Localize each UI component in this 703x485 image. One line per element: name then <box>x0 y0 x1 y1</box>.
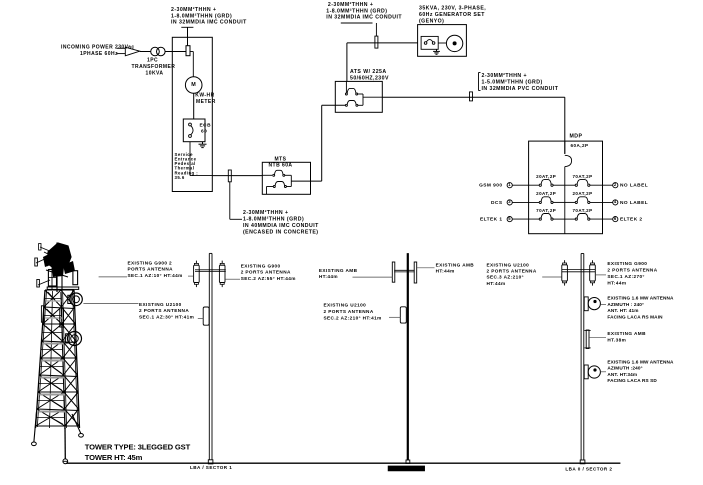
svg-text:60: 60 <box>201 129 207 135</box>
svg-text:TOWER TYPE: 3LEGGED GST: TOWER TYPE: 3LEGGED GST <box>85 443 191 452</box>
leader <box>589 336 606 338</box>
node circuit 3 <box>507 199 512 205</box>
leader <box>83 302 138 304</box>
conduit marker <box>470 92 473 101</box>
svg-text:AZIMUTH :240°: AZIMUTH :240° <box>607 366 642 371</box>
svg-text:DCS: DCS <box>491 200 503 206</box>
ground line <box>66 462 620 464</box>
tower legs and footings <box>32 412 84 464</box>
antenna U2100 sector3 <box>564 260 566 263</box>
antenna crossarm <box>562 269 596 271</box>
svg-text:1-8.0MM²THHN (GRD): 1-8.0MM²THHN (GRD) <box>326 8 387 14</box>
svg-text:HT:44m: HT:44m <box>607 280 626 285</box>
antenna U2100 sector2 <box>400 307 406 323</box>
antenna AMB right <box>414 262 417 283</box>
svg-text:SEC.1 AZ:270°: SEC.1 AZ:270° <box>607 274 644 279</box>
leader <box>389 316 400 318</box>
svg-text:MDP: MDP <box>570 134 583 140</box>
svg-text:LBA / SECTOR 1: LBA / SECTOR 1 <box>190 465 232 470</box>
svg-text:1-8.0MM²THHN (GRD): 1-8.0MM²THHN (GRD) <box>243 217 304 223</box>
svg-text:IN 32MMDIA IMC CONDUIT: IN 32MMDIA IMC CONDUIT <box>171 20 247 26</box>
antenna AMB left <box>392 262 395 282</box>
conduit marker <box>375 36 378 48</box>
conductor label (generator feed) <box>326 2 402 36</box>
svg-text:TRANSFORMER: TRANSFORMER <box>132 64 176 70</box>
svg-text:EXISTING AMB: EXISTING AMB <box>607 331 646 336</box>
wire (riser into service box) <box>187 27 189 45</box>
svg-text:SEC.1 AZ:30° HT:41m: SEC.1 AZ:30° HT:41m <box>139 315 194 320</box>
microwave dish 2 <box>584 365 600 379</box>
svg-text:SEC.3 AZ:210°: SEC.3 AZ:210° <box>487 275 524 280</box>
svg-text:ANT. HT:34m: ANT. HT:34m <box>607 372 637 377</box>
label: service entrance pedestal thermal reading <box>175 152 199 180</box>
svg-text:AZIMUTH : 240°: AZIMUTH : 240° <box>607 302 644 307</box>
svg-text:EXISTING AMB: EXISTING AMB <box>436 262 475 267</box>
svg-text:EXISTING U2100: EXISTING U2100 <box>324 302 367 307</box>
antenna crossarm <box>394 270 414 272</box>
svg-text:6: 6 <box>614 216 617 221</box>
leader <box>188 275 194 277</box>
generator breaker <box>421 36 438 49</box>
wire <box>190 52 193 77</box>
conductor label (MDP feeder) <box>479 73 559 92</box>
svg-text:HT:44m: HT:44m <box>319 274 338 279</box>
node circuit 2 <box>613 182 618 188</box>
leader <box>99 276 127 278</box>
svg-text:70AT,2P: 70AT,2P <box>572 174 592 179</box>
svg-text:EXISTING 1.6 MW ANTENNA: EXISTING 1.6 MW ANTENNA <box>607 296 674 301</box>
svg-text:1-5.0MM²THHN (GRD): 1-5.0MM²THHN (GRD) <box>482 80 543 86</box>
leader <box>600 371 606 373</box>
svg-text:2-30MM²THHN +: 2-30MM²THHN + <box>171 7 216 13</box>
svg-text:1: 1 <box>508 182 511 187</box>
tower microwave dish lower <box>66 332 82 346</box>
tower microwave dish upper <box>68 293 82 306</box>
svg-text:EXISTING U2100: EXISTING U2100 <box>487 262 530 267</box>
svg-text:2-30MM²THHN +: 2-30MM²THHN + <box>482 73 527 79</box>
svg-text:2 PORTS ANTENNA: 2 PORTS ANTENNA <box>324 309 374 314</box>
conduit marker <box>228 170 231 182</box>
branch breaker circuit 2 (70AT,2P) <box>565 174 613 186</box>
svg-text:70AT,2P: 70AT,2P <box>572 208 592 213</box>
svg-text:GSM 900: GSM 900 <box>479 183 502 189</box>
svg-text:EXISTING G900 2: EXISTING G900 2 <box>128 261 173 266</box>
svg-text:20AT,2P: 20AT,2P <box>536 191 556 196</box>
svg-text:ATS W/ 225A: ATS W/ 225A <box>350 69 387 75</box>
svg-text:EXISTING AMB: EXISTING AMB <box>319 268 358 273</box>
leader <box>198 317 203 319</box>
svg-text:HT:44m: HT:44m <box>487 281 506 286</box>
node circuit 1 <box>507 182 512 188</box>
main breaker 60A,2P <box>565 143 589 234</box>
svg-text:M: M <box>191 82 196 88</box>
svg-text:20AT,2P: 20AT,2P <box>572 191 592 196</box>
svg-text:TOWER HT: 45m: TOWER HT: 45m <box>85 453 143 462</box>
branch breaker circuit 4 (20AT,2P) <box>565 191 613 203</box>
svg-text:20AT,2P: 20AT,2P <box>536 174 556 179</box>
branch breaker circuit 5 (70AT,2P) <box>512 208 565 220</box>
conductor label (service entrance feed) <box>171 7 247 27</box>
tower top antennas <box>35 243 79 328</box>
wire <box>212 175 262 177</box>
node circuit 5 <box>507 216 512 222</box>
svg-text:2 PORTS ANTENNA: 2 PORTS ANTENNA <box>139 308 189 313</box>
svg-text:5: 5 <box>508 216 511 221</box>
conductor label (NTB feed, encased) <box>230 182 319 236</box>
redacted label bar <box>388 466 425 471</box>
switch MTS NTB 60A <box>262 157 310 195</box>
svg-text:1-8.0MM²THHN (GRD): 1-8.0MM²THHN (GRD) <box>171 13 232 19</box>
wire <box>190 142 212 176</box>
antenna U2100 sector1 <box>203 307 209 325</box>
svg-text:2-30MM²THHN +: 2-30MM²THHN + <box>328 2 373 8</box>
svg-text:INCOMING POWER 230Vac: INCOMING POWER 230Vac <box>61 45 135 51</box>
node circuit 4 <box>613 199 618 205</box>
svg-text:EXISTING U2100: EXISTING U2100 <box>139 302 182 307</box>
leader <box>353 276 393 278</box>
svg-text:2: 2 <box>614 182 617 187</box>
svg-text:2-30MM²THHN +: 2-30MM²THHN + <box>243 210 288 216</box>
wire <box>140 51 151 53</box>
svg-text:2 PORTS ANTENNA: 2 PORTS ANTENNA <box>241 270 291 275</box>
leader <box>600 304 606 306</box>
branch breaker circuit 1 (20AT,2P) <box>512 174 565 186</box>
svg-text:HT.38m: HT.38m <box>607 337 626 342</box>
antenna AMB mid <box>584 330 590 349</box>
generator G <box>446 35 462 51</box>
svg-text:FACING LACA RS SD: FACING LACA RS SD <box>607 378 657 383</box>
ground <box>436 49 438 51</box>
branch breaker circuit 6 (70AT,2P) <box>565 208 613 220</box>
wire <box>193 93 195 119</box>
service drop arrow <box>117 47 140 56</box>
svg-text:EXISTING G900: EXISTING G900 <box>607 261 647 266</box>
svg-text:FACING LACA RS MAIN: FACING LACA RS MAIN <box>607 314 663 319</box>
svg-text:ELTEK 2: ELTEK 2 <box>620 217 643 223</box>
svg-text:ECB: ECB <box>200 123 212 129</box>
antenna crossarm <box>195 270 226 272</box>
antenna G900 sector1b <box>592 260 594 263</box>
svg-text:70AT,2P: 70AT,2P <box>536 208 556 213</box>
svg-text:KW-HR: KW-HR <box>195 93 214 99</box>
svg-text:PORTS ANTENNA: PORTS ANTENNA <box>128 267 174 272</box>
svg-text:IN 32MMDIA PVC CONDUIT: IN 32MMDIA PVC CONDUIT <box>482 86 559 92</box>
lattice tower body <box>36 290 80 429</box>
svg-text:1PC: 1PC <box>147 58 158 64</box>
mast sector 1 pole <box>208 253 213 464</box>
mast sector 2 pole <box>406 253 410 463</box>
svg-text:IN 40MMDIA IMC CONDUIT: IN 40MMDIA IMC CONDUIT <box>243 223 319 229</box>
svg-text:NO LABEL: NO LABEL <box>620 200 648 206</box>
leader <box>225 278 240 280</box>
svg-text:4: 4 <box>614 199 617 204</box>
svg-text:10KVA: 10KVA <box>146 71 164 77</box>
breaker ECB 60AT <box>183 119 211 142</box>
ground <box>202 142 204 145</box>
svg-text:50/60HZ,230V: 50/60HZ,230V <box>350 75 389 81</box>
generator set 35KVA GENYO <box>418 6 487 57</box>
svg-text:60Hz GENERATOR SET: 60Hz GENERATOR SET <box>419 12 485 18</box>
branch breaker circuit 3 (20AT,2P) <box>512 191 565 203</box>
svg-text:IN 32MMDIA IMC CONDUIT: IN 32MMDIA IMC CONDUIT <box>326 15 402 21</box>
svg-text:2 PORTS ANTENNA: 2 PORTS ANTENNA <box>607 268 657 273</box>
svg-text:2 PORTS ANTENNA: 2 PORTS ANTENNA <box>487 269 537 274</box>
svg-text:METER: METER <box>196 99 216 105</box>
svg-text:60A,2P: 60A,2P <box>571 143 589 148</box>
svg-text:35.6: 35.6 <box>175 175 185 180</box>
svg-text:35KVA, 230V, 3-PHASE,: 35KVA, 230V, 3-PHASE, <box>419 6 486 12</box>
svg-text:NO LABEL: NO LABEL <box>620 183 648 189</box>
wire <box>165 51 186 53</box>
svg-text:SEC.1 AZ:10° HT:44m: SEC.1 AZ:10° HT:44m <box>128 273 183 278</box>
transformer T1 1PC 10KVA <box>132 47 176 76</box>
leader <box>596 274 606 276</box>
svg-text:ELTEK 1: ELTEK 1 <box>480 217 503 223</box>
fuse / meter cutout <box>186 46 190 56</box>
svg-text:HT:44m: HT:44m <box>436 269 455 274</box>
wire (ATS output to MDP) <box>382 97 565 154</box>
svg-text:SEC.2 AZ:55° HT:44m: SEC.2 AZ:55° HT:44m <box>241 276 296 281</box>
svg-text:3: 3 <box>508 199 511 204</box>
panelboard MDP <box>529 134 603 234</box>
svg-text:(ENCASED IN CONCRETE): (ENCASED IN CONCRETE) <box>243 230 318 236</box>
svg-text:(GENYO): (GENYO) <box>419 18 444 24</box>
wire <box>438 42 446 44</box>
label: incoming power <box>61 45 135 58</box>
svg-text:SEC.2 AZ:210° HT:41m: SEC.2 AZ:210° HT:41m <box>324 315 382 320</box>
leader <box>417 267 434 269</box>
leader <box>542 276 561 278</box>
kw-hr meter M <box>185 77 215 105</box>
service entrance pedestal enclosure <box>172 37 212 191</box>
mast sector 3 pole <box>580 254 585 464</box>
node circuit 6 <box>613 216 618 222</box>
wire (NTB output to ATS) <box>291 105 345 181</box>
wire (generator feed) <box>347 43 418 82</box>
svg-text:EXISTING 1.6 MW ANTENNA: EXISTING 1.6 MW ANTENNA <box>607 359 674 364</box>
svg-text:NTB 60A: NTB 60A <box>269 163 293 169</box>
svg-text:LBA 0 / SECTOR 2: LBA 0 / SECTOR 2 <box>565 466 612 471</box>
microwave dish 1 <box>584 297 600 311</box>
transfer switch ATS 225A <box>335 69 389 112</box>
antenna G900 sector2 <box>221 261 223 264</box>
svg-text:EXISTING G900: EXISTING G900 <box>241 263 281 268</box>
antenna G900 sector1 <box>195 261 197 264</box>
svg-text:1PHASE 60Hz: 1PHASE 60Hz <box>80 51 118 57</box>
svg-text:ANT. HT: 41m: ANT. HT: 41m <box>607 308 638 313</box>
